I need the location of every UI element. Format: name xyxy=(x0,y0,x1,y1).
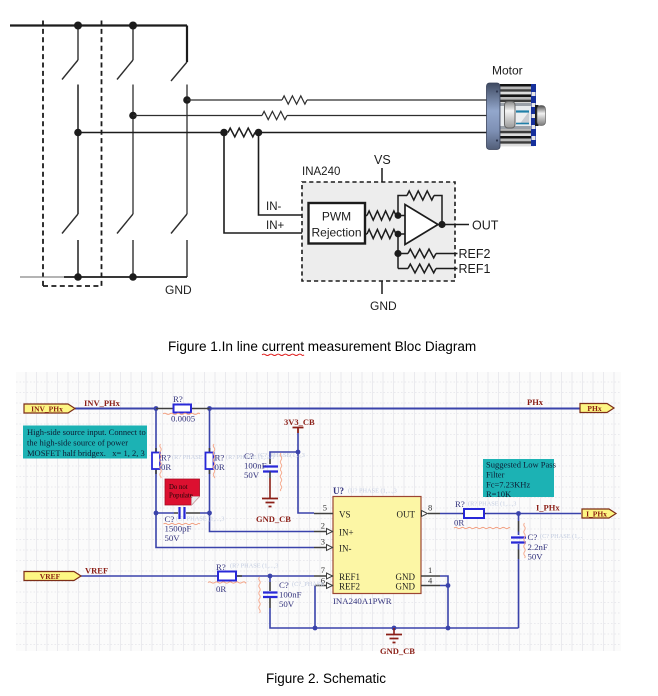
pin 6 REF2 xyxy=(315,585,333,587)
junction dot gnd rail b xyxy=(392,626,397,631)
junction dot top left xyxy=(154,406,159,411)
note low pass filter xyxy=(483,459,554,497)
svg-text:INV_PHx: INV_PHx xyxy=(84,398,121,408)
pin 1 GND xyxy=(421,575,440,577)
feedback resistor xyxy=(398,196,442,225)
svg-text:INA240A1PWR: INA240A1PWR xyxy=(333,596,392,606)
shunt resistor xyxy=(228,128,255,137)
svg-text:IN+: IN+ xyxy=(339,528,354,538)
junction dot gnd pin4 xyxy=(446,583,451,588)
pin 7 REF1 xyxy=(314,575,333,577)
junction dot op-amp input top xyxy=(395,212,402,219)
INA240 dashed block xyxy=(302,182,455,281)
svg-text:0R: 0R xyxy=(161,462,171,472)
svg-text:IN-: IN- xyxy=(339,544,352,554)
svg-text:GND: GND xyxy=(396,582,416,592)
svg-text:I_PHx: I_PHx xyxy=(586,509,607,518)
svg-text:C?: C? xyxy=(528,532,538,542)
svg-text:8: 8 xyxy=(428,503,432,513)
high-side switch Q3 xyxy=(171,26,187,82)
junction dot output xyxy=(438,221,445,228)
wire phase column A xyxy=(77,85,79,215)
junction dot ref xyxy=(394,250,401,257)
wire GND tick xyxy=(381,281,383,294)
port I_PHx xyxy=(582,509,616,518)
svg-text:50V: 50V xyxy=(244,470,260,480)
resistor phase B xyxy=(262,111,287,119)
svg-text:Figure 2. Schematic: Figure 2. Schematic xyxy=(266,671,386,686)
svg-text:3V3_CB: 3V3_CB xyxy=(284,417,315,427)
svg-text:GND: GND xyxy=(396,572,416,582)
svg-text:100nF: 100nF xyxy=(279,590,302,600)
svg-text:R?: R? xyxy=(161,453,171,463)
port VREF xyxy=(24,572,81,581)
wire phase B to motor xyxy=(133,115,487,117)
dashed half-bridge box xyxy=(43,21,102,287)
low-side switch Q4 xyxy=(62,214,78,277)
low-side switch Q6 xyxy=(171,214,187,277)
wire phase A to shunt xyxy=(78,132,487,134)
schematic grid background xyxy=(16,372,621,651)
resistor phase C xyxy=(282,96,307,104)
svg-text:VREF: VREF xyxy=(85,566,108,576)
spellcheck squiggle xyxy=(262,354,304,355)
svg-text:Figure 1.In line current measu: Figure 1.In line current measurement Blo… xyxy=(168,339,476,354)
resistor REF2 xyxy=(398,253,458,255)
PWM Rejection box U1 xyxy=(309,203,366,244)
svg-text:VS: VS xyxy=(374,153,391,167)
wire gnd pins 1/4 xyxy=(440,576,448,628)
svg-text:GND: GND xyxy=(370,299,397,313)
pin 2 IN+ xyxy=(314,531,333,533)
svg-text:2.2nF: 2.2nF xyxy=(528,542,548,552)
wire INV_PHx to PHx top net xyxy=(75,408,580,410)
resistor REF1 xyxy=(398,268,458,270)
svg-text:REF2: REF2 xyxy=(339,582,360,592)
svg-text:(C?_PHASE: (C?_PHASE xyxy=(292,581,324,588)
svg-text:50V: 50V xyxy=(165,533,181,543)
wire cap snubber row xyxy=(156,512,210,514)
svg-text:C?: C? xyxy=(279,580,289,590)
svg-text:(U? PHASE (1,...,3: (U? PHASE (1,...,3 xyxy=(348,488,397,495)
junction dot phase B xyxy=(129,112,137,120)
motor image xyxy=(487,83,546,150)
wire right branch vertical (IN+) xyxy=(209,409,211,453)
junction dot out cap xyxy=(516,511,521,516)
svg-text:IN+: IN+ xyxy=(266,220,285,232)
svg-text:OUT: OUT xyxy=(397,510,416,520)
junction dot phase C xyxy=(183,96,191,104)
junction dot snub left xyxy=(154,511,159,516)
svg-text:C?: C? xyxy=(165,514,175,524)
svg-text:R?: R? xyxy=(173,394,183,404)
capacitor C? 100nF ref xyxy=(263,593,278,598)
svg-text:5: 5 xyxy=(323,503,327,513)
svg-text:100nF: 100nF xyxy=(244,461,267,471)
junction dot op-amp input bottom xyxy=(395,231,402,238)
top supply rail wire xyxy=(10,24,187,26)
svg-text:Motor: Motor xyxy=(492,64,523,78)
svg-text:U?: U? xyxy=(333,486,344,496)
svg-text:7: 7 xyxy=(321,565,325,575)
resistor R? 0R output xyxy=(462,513,486,515)
wire IN- sense xyxy=(259,133,309,216)
svg-text:3: 3 xyxy=(321,537,325,547)
svg-text:Do not: Do not xyxy=(169,484,188,491)
svg-text:(R? PHASE (1,...,3: (R? PHASE (1,...,3 xyxy=(468,501,516,508)
pin 4 GND xyxy=(421,585,440,587)
svg-text:INA240: INA240 xyxy=(302,166,340,178)
junction dot rail A xyxy=(74,22,82,30)
svg-text:(C? PHASE (1,...,3: (C? PHASE (1,...,3 xyxy=(176,516,224,523)
Do not Populate note xyxy=(165,479,200,505)
wire output net xyxy=(440,513,581,515)
wire VS tick xyxy=(381,168,383,182)
wire phase column C xyxy=(186,85,188,215)
pin 3 IN- xyxy=(314,547,333,549)
junction dot shunt left xyxy=(220,129,228,137)
svg-text:REF1: REF1 xyxy=(459,262,491,276)
junction dot gnd rail c xyxy=(446,626,451,631)
wire OUT xyxy=(442,224,469,226)
wire 3V3 branch xyxy=(298,433,314,513)
high-side switch Q1 xyxy=(62,26,78,80)
capacitor C? 2.2nF xyxy=(511,538,526,543)
wire VREF net xyxy=(81,575,314,577)
svg-text:0.0005: 0.0005 xyxy=(171,414,196,424)
svg-text:0R: 0R xyxy=(216,584,226,594)
wire IN+ sense xyxy=(224,133,309,234)
resistor to op-amp + xyxy=(365,215,405,217)
junction dot gnd A xyxy=(74,273,82,281)
junction dot phase A xyxy=(74,129,82,137)
wire ref node xyxy=(397,234,399,269)
junction dot snub right xyxy=(207,511,212,516)
ground GND_CB bottom xyxy=(393,628,395,634)
svg-text:MOSFET half bridgex. x= 1, 2: MOSFET half bridgex. x= 1, 2, 3 xyxy=(27,448,145,458)
pin 5 VS xyxy=(314,513,333,515)
junction dot vref xyxy=(268,574,273,579)
svg-text:(C? PHASE (1,..: (C? PHASE (1,.. xyxy=(540,533,583,540)
svg-text:C?: C? xyxy=(244,451,254,461)
op-amp U2 xyxy=(405,205,438,245)
resistor R? 0R left xyxy=(155,448,157,474)
wire ref cap branch xyxy=(269,576,271,582)
svg-text:0R: 0R xyxy=(454,518,464,528)
resistor R? 0.0005 xyxy=(156,408,210,410)
pin 8 OUT xyxy=(428,513,440,515)
svg-text:IN-: IN- xyxy=(266,201,282,213)
junction dot top right xyxy=(207,406,212,411)
svg-text:50V: 50V xyxy=(528,552,544,562)
junction dot gnd B xyxy=(129,273,137,281)
IC U? INA240A1PWR xyxy=(333,497,421,594)
junction dot gnd rail a xyxy=(313,626,318,631)
svg-text:REF1: REF1 xyxy=(339,572,360,582)
svg-text:GND: GND xyxy=(165,283,192,297)
wire phase column B xyxy=(132,85,134,215)
svg-text:VS: VS xyxy=(339,510,351,520)
resistor R? 0R right xyxy=(209,448,211,474)
junction dot rail B xyxy=(129,22,137,30)
svg-text:Rejection: Rejection xyxy=(311,226,361,240)
port PHx xyxy=(580,404,614,413)
svg-text:R?: R? xyxy=(216,562,226,572)
svg-text:Fc=7.23KHz: Fc=7.23KHz xyxy=(486,480,530,490)
svg-text:OUT: OUT xyxy=(472,219,499,233)
svg-text:GND_CB: GND_CB xyxy=(380,646,415,656)
wire output cap branch xyxy=(518,514,520,522)
svg-text:High-side source input. Connec: High-side source input. Connect to xyxy=(27,427,146,437)
svg-text:PWM: PWM xyxy=(322,210,351,224)
svg-text:R=10K: R=10K xyxy=(486,489,512,499)
svg-text:the high-side source of power: the high-side source of power xyxy=(27,438,128,448)
svg-text:REF2: REF2 xyxy=(459,247,491,261)
svg-text:0R: 0R xyxy=(215,462,225,472)
svg-text:(R? PHASE (1,...,3: (R? PHASE (1,...,3 xyxy=(230,563,278,570)
svg-text:INV_PHx: INV_PHx xyxy=(31,404,63,413)
svg-text:1: 1 xyxy=(428,565,432,575)
svg-text:R?: R? xyxy=(215,453,225,463)
low-side switch Q5 xyxy=(117,214,133,277)
GND rail wire xyxy=(20,276,64,278)
svg-text:VREF: VREF xyxy=(40,572,61,581)
ground GND_CB top xyxy=(269,478,271,498)
capacitor C? 100nF top xyxy=(269,459,271,464)
resistor R? 0R vref xyxy=(218,575,242,577)
svg-text:50V: 50V xyxy=(279,599,295,609)
wire phase C to motor xyxy=(187,99,487,101)
high-side switch Q2 xyxy=(117,26,133,80)
svg-text:R?: R? xyxy=(455,499,465,509)
wire pin6 REF2 xyxy=(314,586,316,629)
svg-text:Suggested Low Pass: Suggested Low Pass xyxy=(486,460,556,470)
wire left branch vertical (IN-) xyxy=(155,409,157,453)
svg-text:PHx: PHx xyxy=(527,397,544,407)
svg-text:2: 2 xyxy=(321,521,325,531)
junction dot shunt right xyxy=(255,129,263,137)
svg-text:Filter: Filter xyxy=(486,470,505,480)
svg-text:I_PHx: I_PHx xyxy=(536,503,560,513)
resistor to op-amp - xyxy=(365,233,405,235)
svg-text:Populate: Populate xyxy=(169,493,193,500)
port INV_PHx xyxy=(24,404,75,413)
svg-text:PHx: PHx xyxy=(587,404,601,413)
note high-side input xyxy=(23,426,147,459)
svg-text:GND_CB: GND_CB xyxy=(256,514,291,524)
junction dot 3v3 cap xyxy=(296,450,301,455)
